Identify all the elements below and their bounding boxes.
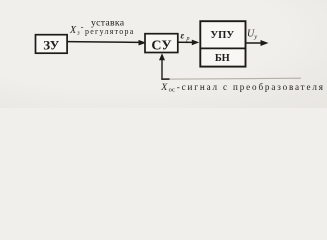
svg-text:у: у [253,34,257,41]
feedback horizontal wire (faint) [161,78,301,79]
svg-text:-: - [81,21,84,31]
dark segment near corner [161,78,169,80]
svg-text:БН: БН [215,53,230,64]
svg-text:з: з [76,31,80,37]
block SU (СУ - сравнивающее устройство) [145,34,178,53]
wire СУ to УПУ with arrow [178,41,194,43]
svg-text:ос: ос [169,87,175,94]
wire УПУ output with arrow [246,42,263,44]
block UPU/BN outer box [200,21,245,66]
svg-text:X: X [69,25,77,36]
subtle scan vignette [0,0,327,108]
svg-text:р: р [186,36,190,42]
divider between УПУ and БН [200,47,246,49]
svg-text:СУ: СУ [151,39,171,54]
svg-text:X: X [160,82,168,93]
svg-text:регулятора: регулятора [85,27,135,36]
svg-text:УПУ: УПУ [210,30,234,41]
svg-text:ε: ε [181,30,185,40]
block ZU (ЗУ - задающее устройство) [36,35,68,54]
svg-text:-сигнал с преобразователя: -сигнал с преобразователя [177,82,325,92]
feedback vertical wire with up arrow into СУ [161,58,163,80]
svg-text:ЗУ: ЗУ [43,37,60,52]
wire ЗУ to СУ with arrow [68,41,141,44]
